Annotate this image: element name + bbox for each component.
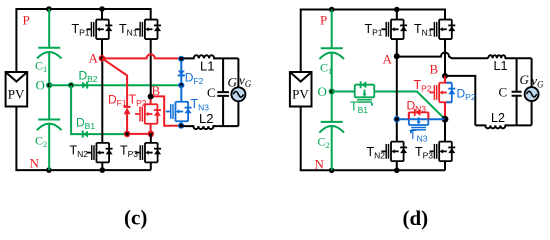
transistor TN2	[92, 143, 109, 163]
wire B to L2	[445, 76, 475, 126]
wire PV bottom to bottom rail	[301, 107, 445, 171]
junction dots bottom rail	[329, 168, 335, 174]
inductor L1	[181, 55, 238, 58]
wire green lower branch	[71, 85, 127, 134]
svg-text:L2: L2	[491, 111, 505, 125]
transistor TN1	[434, 20, 451, 40]
svg-text:L1: L1	[494, 59, 508, 73]
wire red bottom link	[127, 133, 151, 135]
wire right bridge leg TN1 to B	[150, 39, 152, 96]
wire red A to L1 with hop	[102, 54, 181, 58]
capacitor C	[512, 92, 522, 96]
junction dots top rail	[46, 6, 52, 12]
svg-text:(c): (c)	[124, 206, 147, 230]
node L1 input	[178, 56, 184, 62]
transistor TP1	[386, 20, 403, 40]
wire TP3 leads	[444, 119, 446, 170]
node DF2-O junction	[178, 82, 184, 88]
junction dots bottom rail	[46, 167, 52, 173]
svg-text:O: O	[36, 78, 45, 93]
svg-text:A: A	[89, 51, 99, 66]
svg-text:L2: L2	[199, 111, 213, 126]
svg-text:N: N	[30, 156, 40, 171]
wire G branch	[531, 58, 533, 125]
wire right bridge leg TN1 to B	[444, 39, 446, 76]
wire green O line to TB1	[332, 91, 355, 93]
transistor TN1	[140, 20, 157, 40]
diode DF2	[178, 71, 185, 76]
wire C2 branch	[331, 92, 333, 171]
wire G branch	[237, 58, 239, 126]
svg-text:C: C	[207, 85, 216, 100]
svg-text:B: B	[152, 83, 161, 98]
capacitor C1	[38, 47, 60, 49]
transistor TN2	[386, 142, 403, 162]
wire C2 branch	[48, 85, 50, 170]
junction dots top rail	[329, 7, 335, 13]
wire red diagonal A to DF1	[102, 58, 127, 134]
wire TN2 source	[101, 162, 103, 170]
PV module	[6, 72, 28, 107]
wire C branch	[516, 58, 518, 125]
wire top rail	[16, 9, 150, 72]
node B	[148, 94, 154, 100]
svg-text:A: A	[383, 52, 393, 67]
node B	[442, 73, 448, 79]
wire TP3 leads	[150, 134, 152, 170]
wire blue TN3 line	[397, 118, 445, 120]
transistor TN3	[409, 112, 429, 129]
wire green TB1 to diagonal	[374, 92, 445, 120]
inductor L2	[181, 126, 238, 129]
svg-text:P: P	[320, 13, 327, 28]
svg-text:O: O	[318, 84, 327, 99]
transistor TP2	[434, 83, 451, 103]
svg-text:C: C	[499, 85, 508, 100]
wire top rail	[301, 10, 445, 73]
PV module	[290, 72, 312, 107]
wire TP1 leads	[101, 9, 103, 58]
wire blue DF2 branch	[180, 59, 182, 85]
capacitor C	[217, 92, 229, 96]
transistor TP3	[140, 143, 157, 163]
wire blue to TN3	[180, 85, 182, 126]
diode DN3	[409, 109, 429, 116]
diode DB2	[82, 82, 87, 89]
transistor TP3	[434, 142, 451, 162]
diode DF1	[124, 106, 131, 108]
svg-text:L1: L1	[200, 59, 214, 74]
source G	[231, 87, 245, 101]
inductor L2	[475, 125, 531, 128]
inductor L1	[488, 55, 531, 58]
capacitor C1	[321, 47, 343, 49]
svg-text:P: P	[23, 13, 30, 28]
svg-text:G: G	[520, 72, 530, 87]
transistor TP1	[91, 20, 108, 40]
source G	[525, 87, 539, 101]
transistor TP2	[140, 104, 157, 124]
node L2 input	[178, 123, 184, 129]
wire TP1 leads	[396, 10, 398, 57]
transistor TN3	[171, 102, 188, 122]
wire red B to L2 node	[151, 96, 182, 125]
wire C1 branch	[48, 9, 50, 85]
diode DP2	[448, 83, 455, 103]
node green branch junction	[68, 82, 74, 88]
wire C branch	[222, 58, 224, 126]
wire TN2 source	[396, 161, 398, 170]
node TP2 source junction	[442, 116, 449, 123]
svg-text:G: G	[228, 75, 238, 90]
capacitor C2	[38, 119, 60, 121]
wire C1 branch	[331, 10, 333, 92]
svg-text:B: B	[430, 62, 439, 77]
node left mid junction	[394, 116, 400, 122]
wire green O line	[49, 84, 181, 86]
wire left bridge leg A to TN2	[396, 56, 398, 141]
wire left bridge leg A to TN2	[101, 58, 103, 143]
capacitor C2	[321, 121, 343, 123]
wire TP2 leads	[150, 97, 152, 134]
wire A to L1 with hop	[397, 52, 489, 58]
transistor TB1	[355, 85, 375, 102]
diode DB1	[83, 131, 88, 138]
svg-text:(d): (d)	[403, 206, 429, 230]
wire PV bottom to bottom rail	[16, 107, 150, 171]
svg-text:N: N	[315, 157, 325, 172]
wire TP2 leads	[444, 76, 446, 119]
